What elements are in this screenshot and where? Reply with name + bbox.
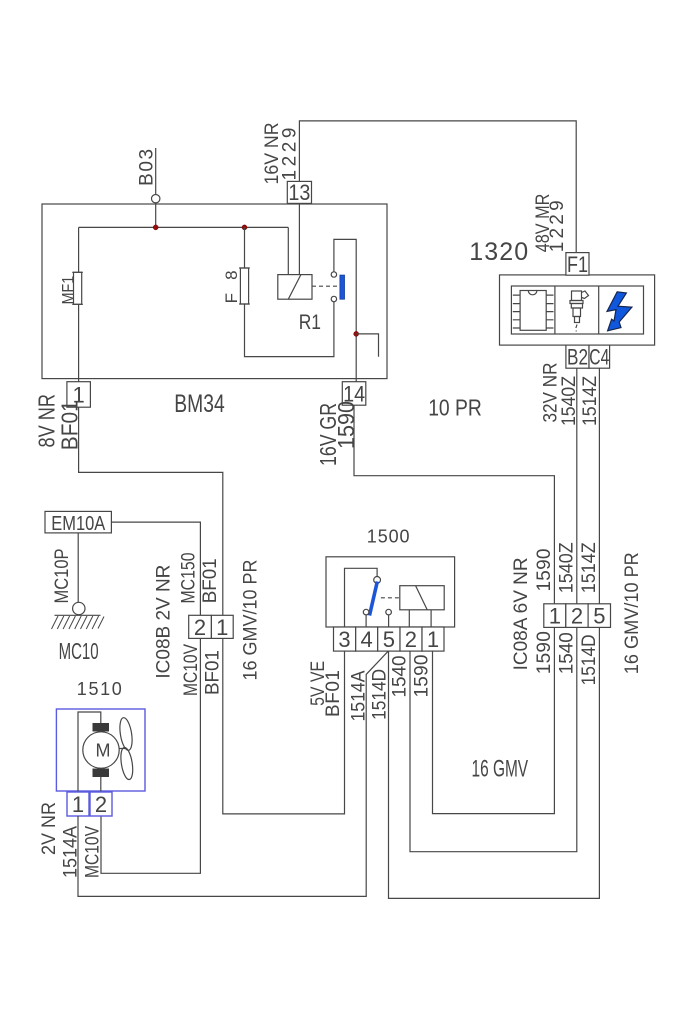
svg-text:1514A: 1514A <box>348 670 369 721</box>
svg-text:MF1: MF1 <box>58 276 77 305</box>
IC chip icon <box>520 291 546 331</box>
junction at F8/bus <box>242 225 247 230</box>
svg-text:BF01: BF01 <box>323 670 344 717</box>
wire relay R1 contact to pin 14 <box>334 239 356 381</box>
1500 coil wires <box>409 610 431 627</box>
wire 1590 from BM34 pin 14 to IC08A pin 1 <box>354 405 554 604</box>
wire F8 to relay R1 contact <box>245 302 334 357</box>
svg-text:2: 2 <box>194 615 206 640</box>
svg-text:1: 1 <box>216 615 228 640</box>
pin 1 of 1500 <box>422 627 444 651</box>
svg-text:R1: R1 <box>299 311 321 334</box>
1500 contact pin 4 <box>363 609 369 615</box>
wire BF01 from IC08B pin 1 to 1500 pin 3 <box>223 638 345 814</box>
wire MC10P from EM10A to ground <box>77 533 79 602</box>
relay R1 contact top <box>331 272 336 277</box>
ground node EM10A box <box>45 511 111 533</box>
pin C4 of 1320 <box>589 345 610 368</box>
svg-text:1590: 1590 <box>333 401 359 449</box>
pin B2 of 1320 <box>566 345 589 368</box>
fuse MF1 body <box>74 272 82 304</box>
motor wire pin 1 to top brush <box>78 712 101 792</box>
ECU box BM34 <box>42 204 387 379</box>
1500 contact pin 5 <box>386 609 392 615</box>
wire MC10V from IC08B pin 2 to motor pin 2 <box>101 638 200 873</box>
svg-text:1500: 1500 <box>367 527 410 547</box>
motor pin 2 <box>90 792 112 816</box>
svg-text:MC10P: MC10P <box>52 549 73 604</box>
wire 1229 from BM34 pin 13 to 1320 pin F1 <box>299 121 576 253</box>
wire 1514Z from C4 to IC08A pin 5 <box>598 368 600 604</box>
svg-text:3: 3 <box>338 627 350 652</box>
wire 1590 from 1500 pin 1 to IC08A pin 1 <box>433 627 555 813</box>
svg-text:MC10V: MC10V <box>82 826 103 878</box>
svg-text:1510: 1510 <box>77 679 122 699</box>
svg-text:1540: 1540 <box>556 632 577 674</box>
fuse F8 wire <box>244 227 246 303</box>
connector IC08A pin 1 <box>544 604 566 628</box>
svg-text:1540Z: 1540Z <box>559 376 580 426</box>
svg-text:2: 2 <box>405 627 417 652</box>
connector IC08B pin 1 <box>211 615 233 638</box>
svg-text:F1: F1 <box>567 252 588 277</box>
svg-text:16 GMV/10 PR: 16 GMV/10 PR <box>241 560 262 681</box>
svg-text:1514Z: 1514Z <box>579 542 600 593</box>
IC chip pins <box>513 295 554 328</box>
injector spray tick <box>576 325 577 332</box>
svg-text:B03: B03 <box>137 149 158 186</box>
fan connector <box>119 748 126 750</box>
connector IC08A pin 2 <box>566 604 588 628</box>
ground circle <box>73 602 85 614</box>
wire bus elbow to relay R1 coil <box>287 227 289 274</box>
1500 contact wires <box>366 615 389 627</box>
supply bus wire inside BM34 <box>79 226 289 228</box>
wire 1540 from 1500 pin 2 to IC08A pin 2 <box>410 627 577 851</box>
junction at B03/bus <box>153 225 158 230</box>
pin 14 of BM34 <box>342 382 366 406</box>
pin 5 of 1500 <box>378 627 400 651</box>
svg-text:1590: 1590 <box>534 631 555 674</box>
pin 3 of 1500 <box>334 627 356 651</box>
svg-text:BF01: BF01 <box>203 650 224 695</box>
pin 13 of BM34 <box>287 181 311 203</box>
svg-text:1590: 1590 <box>534 549 555 592</box>
svg-text:IC08B 2V NR: IC08B 2V NR <box>153 565 174 679</box>
relay R1 dashed link <box>312 285 338 287</box>
svg-text:C4: C4 <box>589 345 609 370</box>
svg-text:BM34: BM34 <box>174 390 224 418</box>
svg-text:1514D: 1514D <box>579 634 600 685</box>
fan top petal <box>118 717 134 751</box>
svg-text:8V NR: 8V NR <box>34 394 60 448</box>
injector icon <box>572 291 582 301</box>
stub wire from junction <box>356 334 378 357</box>
wire 1514D from 1500 pin 5 to IC08A pin 5 <box>389 627 600 898</box>
motor pin 1 <box>67 792 89 816</box>
wire BF01 from BM34 pin 1 to IC08B pin 1 <box>79 407 223 615</box>
ground hatching <box>52 616 105 629</box>
fuse F8 body <box>240 268 248 304</box>
1500 coil diagonal <box>416 586 428 610</box>
relay R1 coil <box>278 275 312 300</box>
svg-text:13: 13 <box>288 180 310 205</box>
svg-text:F8: F8 <box>222 270 241 303</box>
1500 coil <box>400 586 444 610</box>
svg-text:1590: 1590 <box>411 655 432 698</box>
svg-text:1320: 1320 <box>469 238 528 266</box>
svg-text:1540Z: 1540Z <box>556 542 577 593</box>
relay R1 blade (blue) <box>340 275 345 299</box>
fan bottom petal <box>119 747 135 781</box>
svg-text:M: M <box>96 740 111 760</box>
motor top brush <box>93 723 110 732</box>
svg-text:1: 1 <box>427 627 439 652</box>
svg-text:16 GMV/10 PR: 16 GMV/10 PR <box>622 552 643 674</box>
relay R1 contact bottom <box>331 296 336 301</box>
junction near pin 14 <box>354 331 359 336</box>
svg-text:EM10A: EM10A <box>51 513 106 535</box>
1320 inner icon box <box>511 286 643 334</box>
wire MC150 from EM10A to IC08B pin 2 <box>111 522 200 615</box>
relay R1 coil diagonal <box>288 275 301 300</box>
1500 pivot contact <box>374 577 381 584</box>
1500 dashed link <box>381 597 399 599</box>
wire pin 13 to relay R1 coil <box>298 203 300 274</box>
1320 icon cell dividers <box>555 286 599 334</box>
svg-text:MC10V: MC10V <box>181 644 202 696</box>
pin F1 of 1320 <box>566 253 589 276</box>
wire 1540Z from B2 to IC08A pin 2 <box>576 368 578 604</box>
svg-text:MC10: MC10 <box>59 638 99 664</box>
node B03 stub wire <box>155 148 157 194</box>
svg-text:5: 5 <box>593 604 605 629</box>
svg-text:2V NR: 2V NR <box>39 802 60 855</box>
motor body circle <box>83 732 119 768</box>
svg-text:BF01: BF01 <box>200 558 221 603</box>
node B03 circle <box>152 195 160 203</box>
wire 1514A from motor pin 1 to 1500 pin 5 <box>78 651 388 896</box>
svg-text:10 PR: 10 PR <box>428 394 482 420</box>
IC chip notch <box>528 291 537 295</box>
1500 pivot wire to pin 3 <box>345 568 378 627</box>
svg-text:5: 5 <box>383 627 395 652</box>
motor bottom brush <box>93 769 110 778</box>
svg-text:1: 1 <box>72 792 84 817</box>
wire bottom brush to pin 2 <box>100 777 102 792</box>
pin 1 of BM34 <box>67 382 91 408</box>
1500 blade (blue) <box>370 582 378 616</box>
svg-text:4: 4 <box>361 627 373 652</box>
svg-text:2: 2 <box>571 604 583 629</box>
svg-text:16 GMV: 16 GMV <box>472 756 529 783</box>
motor 1510 box (blue) <box>56 709 145 791</box>
svg-text:B2: B2 <box>567 345 588 370</box>
svg-text:1540: 1540 <box>389 656 410 698</box>
lightning bolt icon (blue) <box>607 292 632 331</box>
pin 2 of 1500 <box>400 627 422 651</box>
svg-text:1514D: 1514D <box>370 669 391 720</box>
ECU 1320 box <box>500 275 655 345</box>
relay 1500 box <box>326 557 455 627</box>
svg-text:IC08A 6V NR: IC08A 6V NR <box>511 557 532 670</box>
injector flag <box>582 291 589 299</box>
wire from B03 circle to bus <box>155 203 157 228</box>
ground symbol MC10 line <box>55 614 101 616</box>
svg-text:1514Z: 1514Z <box>580 376 601 426</box>
connector IC08A pin 5 <box>588 604 610 628</box>
connector IC08B pin 2 <box>189 615 212 638</box>
fuse F8 end caps <box>239 268 250 304</box>
pin 4 of 1500 <box>356 627 378 651</box>
svg-text:MC150: MC150 <box>178 553 199 604</box>
svg-text:1: 1 <box>549 604 561 629</box>
fuse MF1 end caps <box>72 272 83 304</box>
svg-text:2: 2 <box>95 792 107 817</box>
fuse MF1 wire <box>78 227 80 381</box>
